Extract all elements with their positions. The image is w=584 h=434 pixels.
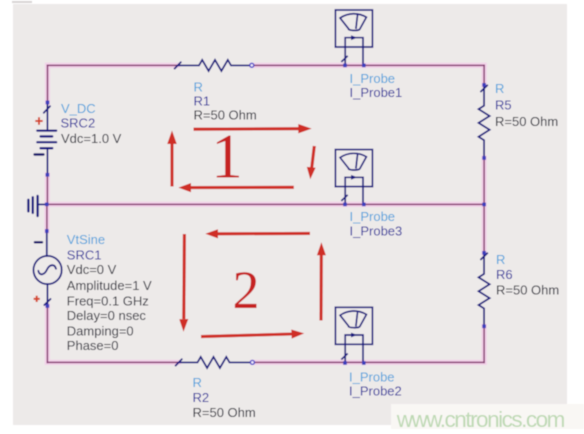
svg-text:R6: R6	[496, 267, 513, 282]
svg-text:2: 2	[233, 260, 260, 320]
wire VtSine to bottom corner	[46, 306, 48, 362]
svg-text:I_Probe: I_Probe	[350, 209, 396, 224]
current probe I_Probe3	[335, 150, 372, 205]
arrow mesh2 bottom right	[201, 334, 292, 337]
svg-text:I_Probe2: I_Probe2	[349, 383, 402, 398]
label V_DC	[61, 101, 122, 146]
arrow mesh2 top left	[218, 232, 310, 236]
wire top R1-corner	[252, 64, 484, 66]
dc source V_DC SRC2	[35, 102, 57, 174]
svg-text:R1: R1	[194, 94, 211, 109]
svg-text:R2: R2	[193, 390, 210, 405]
svg-text:Phase=0: Phase=0	[67, 338, 119, 353]
label R5	[495, 81, 558, 129]
svg-text:R: R	[495, 81, 504, 96]
node battery bottom pin	[46, 173, 50, 177]
node I_Probe1 left pin	[343, 64, 347, 68]
wire battery to ground node	[46, 175, 48, 205]
svg-text:V_DC: V_DC	[61, 101, 96, 116]
node R5 top pin	[482, 83, 486, 87]
svg-text:I_Probe3: I_Probe3	[350, 224, 403, 239]
svg-text:R: R	[496, 252, 505, 267]
wire right vertical top	[483, 65, 485, 85]
node I_Probe2 left pin	[343, 361, 347, 365]
current probe I_Probe2	[335, 307, 372, 363]
svg-text:R5: R5	[495, 98, 512, 113]
svg-text:Vdc=1.0 V: Vdc=1.0 V	[61, 131, 122, 146]
node R5 bottom pin	[482, 156, 486, 160]
node R6 top pin	[482, 251, 486, 255]
svg-text:Vdc=0 V: Vdc=0 V	[67, 262, 117, 277]
svg-text:R: R	[194, 80, 203, 95]
resistor R5	[479, 85, 490, 158]
node battery top pin	[46, 101, 50, 105]
wire right vertical bottom	[483, 326, 485, 362]
node I_Probe2 right pin	[362, 361, 366, 365]
node I_Probe1 right pin	[362, 64, 366, 68]
svg-text:R=50 Ohm: R=50 Ohm	[495, 114, 558, 129]
wire bottom left-R2	[47, 361, 178, 363]
svg-text:SRC1: SRC1	[67, 247, 102, 262]
arrow mesh1 left up	[170, 142, 173, 187]
svg-text:R: R	[193, 375, 202, 390]
resistor R1	[175, 60, 250, 71]
node VtSine bottom pin	[46, 304, 50, 308]
arrow mesh1 right down	[312, 146, 315, 168]
faint top-left dash	[12, 1, 32, 3]
svg-text:VtSine: VtSine	[67, 232, 105, 247]
svg-text:SRC2: SRC2	[61, 116, 96, 131]
mesh 2 arrows	[179, 229, 326, 338]
watermark band	[391, 404, 584, 429]
label R2	[193, 375, 256, 420]
label R1	[194, 80, 257, 123]
wire bottom R2-corner	[252, 361, 484, 363]
plus sign of SRC1	[34, 296, 40, 302]
open node circle at R1 right	[250, 63, 254, 67]
svg-text:I_Probe: I_Probe	[349, 369, 395, 384]
node R6 bottom pin	[482, 325, 486, 329]
wire top left-R1	[48, 64, 178, 66]
node ground junction	[45, 203, 49, 207]
label I_Probe3	[350, 209, 403, 239]
arrow mesh2 left down	[182, 234, 186, 319]
label I_Probe1	[350, 71, 403, 100]
ground	[28, 196, 46, 216]
wire left vertical top	[47, 65, 49, 102]
resistor R2	[176, 357, 251, 368]
node I_Probe3 left pin	[343, 203, 347, 207]
mesh 1 arrows	[167, 124, 315, 192]
arrow mesh2 right up	[319, 255, 322, 321]
node I_Probe3 right pin	[362, 203, 366, 207]
node dots	[45, 64, 486, 365]
svg-text:I_Probe1: I_Probe1	[350, 85, 403, 100]
wire ground node to VtSine	[46, 204, 48, 231]
svg-text:R=50 Ohm: R=50 Ohm	[194, 108, 257, 123]
svg-text:Delay=0 nsec: Delay=0 nsec	[67, 308, 147, 323]
svg-text:www.cntronics.com: www.cntronics.com	[396, 407, 565, 432]
label VtSine	[67, 232, 152, 353]
svg-text:R=50 Ohm: R=50 Ohm	[193, 405, 256, 420]
node right mid junction	[482, 203, 486, 207]
label R6	[496, 252, 559, 297]
svg-text:1: 1	[211, 122, 243, 192]
wire right vertical middle	[483, 158, 485, 253]
current probe I_Probe1	[335, 10, 372, 65]
sine source VtSine SRC1	[34, 231, 62, 306]
svg-text:Freq=0.1 GHz: Freq=0.1 GHz	[67, 293, 149, 308]
arrow mesh1 top right	[194, 127, 300, 131]
arrow mesh1 bottom left	[191, 186, 294, 189]
wire middle horizontal	[47, 203, 484, 205]
svg-text:Damping=0: Damping=0	[67, 323, 134, 338]
label I_Probe2	[349, 369, 402, 398]
svg-text:R=50 Ohm: R=50 Ohm	[496, 282, 559, 297]
plus sign of SRC2	[35, 117, 42, 124]
node VtSine top pin	[45, 229, 49, 233]
wire glow underlay	[47, 65, 484, 362]
open node circle at R2 right	[250, 360, 254, 364]
svg-text:Amplitude=1 V: Amplitude=1 V	[67, 278, 152, 293]
resistor R6	[479, 253, 490, 326]
svg-text:I_Probe: I_Probe	[350, 71, 396, 86]
